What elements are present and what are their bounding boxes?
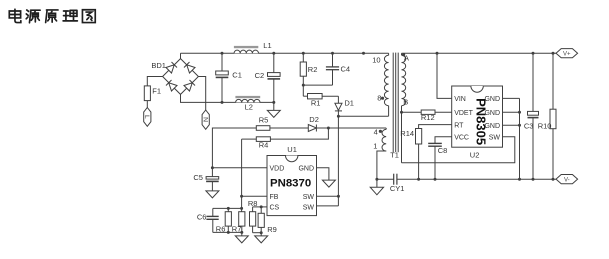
- node aux junction: [327, 127, 330, 130]
- wire U1 sw1: [317, 195, 339, 197]
- svg-text:4: 4: [374, 128, 378, 137]
- svg-text:CS: CS: [270, 205, 280, 212]
- wire: [198, 77, 205, 111]
- bridge diode top-right: [184, 62, 195, 73]
- wire: [337, 116, 339, 206]
- U1 pin CS: [270, 205, 280, 212]
- diode D2: [308, 115, 319, 132]
- ground primary: [370, 179, 383, 195]
- node: [434, 178, 437, 181]
- svg-text:D1: D1: [344, 99, 354, 108]
- wire U2 gnd3: [503, 124, 520, 126]
- capacitor C5: [193, 173, 218, 182]
- resistor R1: [303, 94, 338, 108]
- resistor R4: [242, 128, 329, 149]
- svg-text:VIN: VIN: [454, 96, 466, 103]
- node FB: [240, 195, 243, 198]
- node: [552, 178, 555, 181]
- node: [518, 178, 521, 181]
- svg-text:SW: SW: [303, 194, 315, 201]
- wire top rail secondary: [402, 52, 557, 54]
- bridge diode top-left: [166, 62, 177, 73]
- svg-text:R5: R5: [259, 115, 269, 124]
- svg-text:R4: R4: [259, 140, 269, 149]
- label 10: [372, 55, 380, 64]
- U1 pin SW b: [303, 205, 315, 212]
- node switch junction: [337, 115, 340, 118]
- svg-text:C2: C2: [255, 71, 265, 80]
- terminal V-: [556, 175, 578, 184]
- ground R6R7: [235, 232, 248, 243]
- wire secondary B: [401, 106, 403, 163]
- svg-text:BD1: BD1: [151, 61, 166, 70]
- svg-text:U1: U1: [287, 145, 297, 154]
- label 4: [374, 128, 378, 137]
- U2 pin VIN: [454, 96, 466, 103]
- resistor R5: [256, 115, 270, 130]
- svg-text:V-: V-: [564, 177, 570, 183]
- ground U1: [322, 180, 335, 187]
- svg-text:L2: L2: [245, 103, 253, 112]
- wire: [397, 178, 556, 180]
- wire: [213, 207, 242, 209]
- resistor R8: [248, 199, 258, 233]
- wire aux pin1: [377, 151, 386, 179]
- capacitor C2: [255, 53, 280, 102]
- capacitor C4: [326, 53, 350, 85]
- label T1: [390, 151, 399, 160]
- resistor R6: [216, 208, 232, 233]
- wire FB pin: [242, 195, 267, 197]
- bridge diode bottom-right: [184, 80, 195, 91]
- svg-text:CY1: CY1: [390, 184, 405, 193]
- capacitor C3: [524, 53, 539, 179]
- node: [518, 111, 521, 114]
- terminal N: [201, 110, 209, 129]
- wire: [180, 53, 182, 58]
- node: [227, 207, 230, 210]
- terminal L: [143, 108, 151, 127]
- wire: [253, 232, 262, 234]
- U1 pin FB: [270, 194, 279, 201]
- capacitor C1: [216, 53, 242, 102]
- resistor R12: [402, 110, 452, 122]
- U1 name PN8370: [270, 178, 311, 190]
- U1 pin SW a: [303, 194, 315, 201]
- node sw1: [337, 195, 340, 198]
- svg-text:C5: C5: [193, 173, 203, 182]
- svg-text:GND: GND: [298, 165, 314, 172]
- node B: [400, 111, 403, 114]
- transformer aux winding: [382, 128, 386, 151]
- wire: [338, 115, 388, 117]
- label pin 8 with phase dot: [377, 93, 384, 102]
- svg-text:R12: R12: [421, 113, 435, 122]
- node: [417, 178, 420, 181]
- node: [240, 231, 243, 234]
- wire: [388, 106, 390, 117]
- svg-text:T1: T1: [390, 151, 399, 160]
- resistor R2: [300, 53, 317, 85]
- wire: [270, 127, 308, 129]
- node: [227, 231, 230, 234]
- label BD1: [151, 61, 166, 70]
- resistor R14: [400, 125, 451, 180]
- svg-text:R14: R14: [400, 129, 414, 138]
- op-amp U2 body: [452, 86, 503, 160]
- fuse F1: [144, 86, 161, 101]
- inductor L1: [234, 41, 272, 53]
- transformer primary winding: [384, 53, 388, 105]
- svg-text:C6: C6: [197, 213, 207, 222]
- wire U1 gnd: [317, 168, 329, 180]
- svg-text:PN8305: PN8305: [474, 98, 489, 145]
- svg-text:R10: R10: [538, 122, 552, 131]
- svg-text:VDET: VDET: [454, 110, 473, 117]
- svg-text:U2: U2: [470, 151, 480, 160]
- U1 pin VDD: [270, 165, 285, 172]
- svg-text:VDD: VDD: [270, 165, 285, 172]
- transformer core: [393, 53, 398, 153]
- wire U2 sw: [402, 137, 515, 163]
- U1 pin GND: [298, 165, 314, 172]
- phase dot 4: [379, 130, 382, 133]
- title 电源原理图: [9, 9, 95, 23]
- svg-text:R9: R9: [267, 225, 277, 234]
- label 1: [373, 142, 377, 151]
- svg-text:R2: R2: [308, 65, 318, 74]
- wire: [147, 77, 162, 86]
- capacitor C8: [428, 137, 452, 180]
- node: [260, 231, 263, 234]
- svg-text:SW: SW: [303, 205, 315, 212]
- svg-text:SW: SW: [489, 135, 501, 142]
- svg-text:L: L: [143, 115, 150, 119]
- node: [532, 52, 535, 55]
- diode D1: [335, 96, 354, 116]
- U2 pin VCC: [454, 135, 469, 142]
- svg-text:1: 1: [373, 142, 377, 151]
- bridge BD1 outline: [163, 59, 199, 95]
- node: [375, 178, 378, 181]
- node: [362, 52, 365, 55]
- wire: [146, 101, 148, 108]
- svg-text:B: B: [403, 98, 408, 107]
- U2 pin RT: [454, 122, 464, 129]
- U2 name PN8305: [474, 98, 489, 145]
- transformer secondary winding: [402, 53, 406, 105]
- wire FB vertical: [241, 139, 243, 208]
- node: [552, 52, 555, 55]
- resistor R7: [232, 208, 245, 233]
- svg-text:C4: C4: [341, 65, 351, 74]
- U2 pin GND1: [484, 96, 500, 103]
- node: [331, 52, 334, 55]
- wire U1 sw2: [317, 205, 339, 207]
- node: [302, 52, 305, 55]
- wire: [316, 127, 386, 129]
- svg-text:C1: C1: [232, 70, 242, 79]
- svg-text:VCC: VCC: [454, 135, 469, 142]
- wire VIN: [437, 53, 452, 98]
- U2 pin VDET: [454, 110, 473, 117]
- U2 pin SW: [489, 135, 501, 142]
- wire CS: [253, 206, 267, 208]
- ground R8R9: [255, 233, 268, 243]
- svg-text:L1: L1: [263, 41, 271, 50]
- ground under C2: [267, 102, 280, 117]
- phase dot A: [402, 53, 405, 56]
- wire top rail primary: [181, 52, 389, 54]
- svg-text:C3: C3: [524, 122, 534, 131]
- terminal V+: [556, 49, 578, 58]
- wire VDD: [212, 167, 267, 169]
- node: [260, 205, 263, 208]
- svg-text:FB: FB: [270, 194, 279, 201]
- svg-text:F1: F1: [152, 87, 161, 96]
- node: [272, 101, 275, 104]
- svg-text:PN8370: PN8370: [270, 178, 311, 190]
- svg-text:V+: V+: [563, 51, 571, 57]
- svg-text:A: A: [404, 53, 409, 62]
- op-amp U1 body: [267, 145, 317, 216]
- wire: [212, 128, 256, 177]
- resistor R10: [538, 53, 556, 179]
- capacitor CY1: [390, 174, 405, 193]
- wire: [213, 231, 242, 233]
- svg-text:C8: C8: [438, 146, 448, 155]
- inductor L2: [235, 96, 260, 112]
- node: [302, 84, 305, 87]
- wire: [181, 94, 274, 102]
- label B: [403, 98, 408, 107]
- svg-text:D2: D2: [309, 115, 319, 124]
- svg-text:RT: RT: [454, 122, 464, 129]
- node: [240, 207, 243, 210]
- node: [221, 101, 224, 104]
- capacitor C6: [197, 208, 219, 232]
- node: [532, 178, 535, 181]
- svg-text:N: N: [201, 117, 208, 122]
- U2 pin GND2: [484, 110, 500, 117]
- wire: [303, 84, 332, 86]
- node: [221, 52, 224, 55]
- svg-text:8: 8: [377, 93, 381, 102]
- svg-text:10: 10: [372, 55, 380, 64]
- node: [436, 52, 439, 55]
- node: [272, 52, 275, 55]
- resistor R9: [258, 207, 277, 234]
- wire U2 gnd2: [503, 111, 520, 113]
- node VDD: [211, 166, 214, 169]
- wire: [302, 85, 304, 96]
- U2 pin GND3: [484, 123, 500, 130]
- svg-text:R1: R1: [311, 98, 321, 107]
- wire: [377, 178, 394, 180]
- node: [518, 124, 521, 127]
- ground under C5: [206, 181, 219, 198]
- bridge diode bottom-left: [166, 80, 177, 91]
- wire U2 gnd1: [503, 97, 520, 99]
- wire U2 gnd vertical: [519, 98, 521, 179]
- label A: [404, 53, 409, 62]
